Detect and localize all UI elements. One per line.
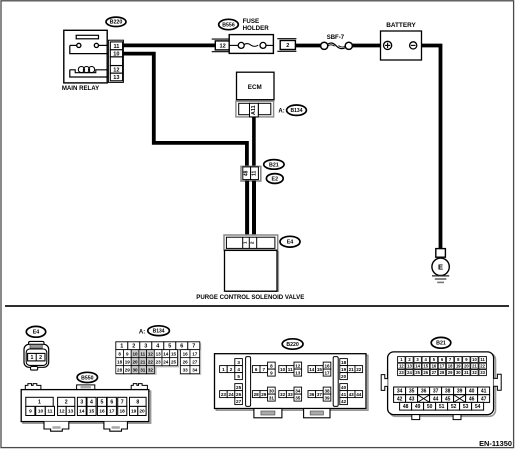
svg-text:29: 29	[448, 370, 453, 375]
svg-text:5: 5	[237, 374, 240, 379]
svg-text:7: 7	[263, 367, 266, 372]
svg-text:15: 15	[89, 409, 95, 415]
pin 11	[110, 42, 122, 50]
svg-text:24: 24	[407, 370, 412, 375]
svg-text:12: 12	[399, 364, 404, 369]
svg-text:11: 11	[252, 170, 258, 176]
svg-text:43: 43	[409, 396, 415, 402]
svg-text:14: 14	[415, 364, 420, 369]
svg-text:13: 13	[156, 351, 162, 356]
svg-text:18: 18	[448, 364, 453, 369]
svg-text:42: 42	[341, 399, 347, 404]
pin blank	[110, 57, 122, 66]
fuse holder pin 2	[277, 39, 296, 52]
connector B21/E2 pins 48 and 11	[241, 166, 261, 181]
wire SBF-7 to battery	[352, 44, 384, 48]
svg-text:40: 40	[341, 385, 347, 390]
svg-text:11: 11	[480, 357, 485, 362]
svg-text:34: 34	[397, 389, 403, 395]
svg-text:17: 17	[440, 364, 445, 369]
connector label E4 oval	[280, 236, 300, 247]
svg-text:20: 20	[139, 409, 145, 415]
svg-text:3: 3	[237, 360, 240, 365]
svg-text:38: 38	[445, 389, 451, 395]
connector B550 face view pins 1-20	[21, 384, 150, 432]
connector label E2 oval	[266, 174, 283, 184]
svg-text:48: 48	[403, 404, 409, 410]
svg-text:48: 48	[244, 170, 250, 176]
svg-text:27: 27	[432, 370, 437, 375]
svg-text:36: 36	[309, 392, 315, 397]
svg-text:8: 8	[270, 363, 273, 368]
label MAIN RELAY	[62, 85, 99, 92]
svg-text:31: 31	[464, 370, 469, 375]
svg-text:20: 20	[464, 364, 469, 369]
svg-text:30: 30	[456, 370, 461, 375]
svg-text:BATTERY: BATTERY	[386, 22, 416, 29]
svg-text:13: 13	[113, 75, 119, 81]
svg-text:39: 39	[457, 389, 463, 395]
svg-text:16: 16	[99, 409, 105, 415]
svg-text:32: 32	[148, 367, 154, 372]
svg-text:51: 51	[439, 404, 445, 410]
svg-text:37: 37	[317, 392, 323, 397]
svg-text:SBF-7: SBF-7	[327, 35, 345, 41]
svg-text:14: 14	[79, 409, 85, 415]
pin 10	[110, 50, 122, 58]
svg-text:8: 8	[136, 400, 139, 406]
svg-text:3: 3	[80, 400, 83, 406]
main relay	[64, 30, 111, 83]
svg-text:54: 54	[475, 404, 481, 410]
connector B220 pin strip	[108, 40, 123, 82]
svg-text:12: 12	[295, 363, 301, 368]
svg-text:40: 40	[469, 389, 475, 395]
connector E4 pins 1 and 2	[224, 235, 278, 250]
svg-text:44: 44	[356, 392, 362, 397]
svg-text:26: 26	[236, 392, 242, 397]
svg-text:35: 35	[409, 389, 415, 395]
svg-text:E: E	[438, 263, 443, 272]
svg-text:4: 4	[237, 367, 240, 372]
purge control solenoid valve	[196, 250, 304, 301]
connector B21 face view pins 1-54	[381, 352, 501, 420]
svg-text:50: 50	[427, 404, 433, 410]
svg-text:7: 7	[121, 400, 124, 406]
svg-text:29: 29	[125, 367, 131, 372]
svg-text:17: 17	[192, 351, 198, 356]
fuse holder body with fuse	[229, 35, 273, 54]
svg-text:6: 6	[180, 344, 183, 350]
svg-text:25: 25	[415, 370, 420, 375]
svg-text:2: 2	[286, 43, 289, 49]
svg-text:23: 23	[156, 359, 162, 364]
svg-text:4: 4	[90, 400, 93, 406]
svg-text:32: 32	[280, 392, 286, 397]
ECM	[237, 72, 275, 100]
svg-text:9: 9	[29, 409, 32, 415]
svg-text:30: 30	[269, 388, 275, 393]
svg-text:3: 3	[144, 344, 147, 350]
svg-text:33: 33	[288, 392, 294, 397]
svg-text:HOLDER: HOLDER	[243, 25, 270, 32]
svg-text:6: 6	[255, 367, 258, 372]
svg-text:22: 22	[356, 367, 362, 372]
svg-text:7: 7	[192, 344, 195, 350]
svg-text:20: 20	[132, 359, 138, 364]
svg-text:11: 11	[140, 351, 145, 356]
connector B220 face view pins 1-44	[215, 354, 368, 418]
svg-text:19: 19	[131, 409, 137, 415]
svg-text:19: 19	[456, 364, 461, 369]
svg-text:5: 5	[101, 400, 104, 406]
svg-text:52: 52	[451, 404, 457, 410]
svg-text:12: 12	[59, 409, 65, 415]
fusible link SBF-7	[321, 35, 353, 50]
svg-text:16: 16	[432, 364, 437, 369]
svg-text:14: 14	[163, 351, 169, 356]
connector label B220 oval face view	[282, 339, 303, 349]
svg-text:10: 10	[38, 409, 44, 415]
svg-text:B556: B556	[222, 22, 235, 28]
svg-text:34: 34	[295, 388, 301, 393]
svg-text:18: 18	[341, 360, 347, 365]
svg-text:E4: E4	[33, 330, 40, 336]
wire E2 pin 48 to E4 pin 1	[245, 181, 249, 238]
label FUSE HOLDER	[243, 18, 270, 32]
svg-text:19: 19	[125, 359, 131, 364]
svg-text:13: 13	[68, 409, 74, 415]
svg-text:13: 13	[295, 370, 301, 375]
svg-text:44: 44	[433, 396, 439, 402]
wire E2 pin 11 to E4 pin 2	[252, 181, 256, 238]
svg-text:42: 42	[397, 396, 403, 402]
svg-text:33: 33	[480, 370, 485, 375]
svg-text:25: 25	[171, 359, 177, 364]
svg-text:18: 18	[120, 409, 126, 415]
svg-text:45: 45	[445, 396, 451, 402]
svg-text:15: 15	[171, 351, 177, 356]
connector label A: B134 face view	[139, 326, 170, 336]
svg-text:B220: B220	[286, 342, 299, 348]
svg-text:11: 11	[113, 44, 119, 50]
connector label B550 oval	[77, 372, 97, 382]
svg-text:28: 28	[254, 392, 260, 397]
svg-text:12: 12	[148, 351, 154, 356]
svg-text:25: 25	[236, 385, 242, 390]
svg-text:10: 10	[132, 351, 138, 356]
svg-text:19: 19	[341, 367, 347, 372]
svg-text:41: 41	[481, 389, 487, 395]
svg-text:1: 1	[38, 400, 41, 406]
svg-text:B134: B134	[153, 329, 165, 335]
svg-text:1: 1	[243, 241, 249, 244]
svg-text:39: 39	[324, 395, 330, 400]
svg-text:27: 27	[236, 399, 242, 404]
svg-text:11: 11	[47, 409, 52, 415]
svg-text:10: 10	[280, 367, 286, 372]
label EN-11350	[479, 439, 512, 448]
pin 13	[110, 73, 122, 81]
svg-text:21: 21	[472, 364, 477, 369]
wire fuse holder pin 2 to SBF-7	[295, 44, 320, 48]
svg-text:11: 11	[288, 367, 293, 372]
svg-text:B220: B220	[110, 20, 123, 26]
wire relay pin 10 to connector B21 pin 48	[123, 54, 246, 168]
svg-text:21: 21	[349, 367, 355, 372]
svg-text:46: 46	[469, 396, 475, 402]
svg-text:8: 8	[118, 351, 121, 356]
svg-text:14: 14	[309, 367, 315, 372]
connector label B556 oval	[219, 19, 239, 29]
connector E4 face view	[24, 341, 49, 370]
svg-text:29: 29	[261, 392, 267, 397]
svg-text:34: 34	[192, 367, 198, 372]
svg-text:23: 23	[221, 392, 227, 397]
svg-text:E2: E2	[272, 176, 279, 182]
svg-text:5: 5	[168, 344, 171, 350]
svg-text:B134: B134	[291, 108, 303, 114]
svg-text:16: 16	[324, 363, 330, 368]
svg-text:38: 38	[324, 388, 330, 393]
svg-text:20: 20	[341, 374, 347, 379]
wire relay pin 11 to fuse holder pin 12	[123, 44, 215, 48]
svg-text:10: 10	[472, 357, 477, 362]
svg-text:16: 16	[183, 351, 189, 356]
svg-text:ECM: ECM	[248, 84, 262, 91]
svg-text:A11: A11	[251, 105, 257, 115]
svg-text:32: 32	[472, 370, 477, 375]
svg-text:A:: A:	[278, 109, 284, 115]
svg-text:17: 17	[324, 370, 330, 375]
svg-text:36: 36	[421, 389, 427, 395]
svg-text:1: 1	[30, 355, 33, 361]
ground E	[432, 249, 449, 283]
svg-text:26: 26	[423, 370, 428, 375]
svg-text:47: 47	[481, 396, 487, 402]
svg-text:28: 28	[117, 367, 123, 372]
wire ECM A11 to connector B21 pin 11	[252, 117, 256, 168]
svg-text:22: 22	[148, 359, 154, 364]
svg-text:12: 12	[219, 44, 225, 50]
svg-text:28: 28	[440, 370, 445, 375]
svg-text:49: 49	[415, 404, 421, 410]
connector label A: B134	[278, 105, 306, 115]
svg-text:6: 6	[110, 400, 113, 406]
svg-text:2: 2	[39, 355, 42, 361]
svg-text:18: 18	[117, 359, 123, 364]
svg-text:B21: B21	[436, 341, 446, 347]
svg-text:30: 30	[132, 367, 138, 372]
svg-text:12: 12	[113, 68, 119, 74]
svg-text:9: 9	[270, 370, 273, 375]
svg-text:22: 22	[480, 364, 485, 369]
svg-text:PURGE CONTROL SOLENOID VALVE: PURGE CONTROL SOLENOID VALVE	[196, 294, 304, 301]
svg-text:53: 53	[463, 404, 469, 410]
svg-text:A:: A:	[139, 330, 145, 336]
svg-text:27: 27	[192, 359, 198, 364]
svg-text:MAIN RELAY: MAIN RELAY	[62, 85, 99, 92]
svg-text:31: 31	[269, 395, 275, 400]
connector label B21 oval	[264, 160, 284, 170]
svg-text:2: 2	[230, 367, 233, 372]
separator line	[5, 305, 509, 307]
connector label B220 oval	[106, 17, 126, 26]
svg-text:2: 2	[250, 241, 256, 244]
svg-text:21: 21	[140, 359, 146, 364]
svg-text:1: 1	[120, 344, 123, 350]
svg-text:33: 33	[183, 367, 189, 372]
svg-text:23: 23	[399, 370, 404, 375]
svg-text:9: 9	[126, 351, 129, 356]
connector E4 face view label	[26, 326, 45, 337]
fuse holder pin 12	[212, 39, 231, 52]
svg-text:26: 26	[183, 359, 189, 364]
svg-text:35: 35	[295, 395, 301, 400]
svg-text:FUSE: FUSE	[243, 18, 260, 25]
svg-text:2: 2	[65, 400, 68, 406]
pin 12	[110, 66, 122, 74]
svg-text:17: 17	[109, 409, 115, 415]
svg-text:43: 43	[349, 392, 355, 397]
svg-text:B550: B550	[81, 375, 94, 381]
svg-text:24: 24	[163, 359, 169, 364]
svg-text:EN-11350: EN-11350	[479, 439, 512, 448]
svg-text:15: 15	[317, 367, 323, 372]
svg-text:41: 41	[341, 392, 347, 397]
svg-text:2: 2	[132, 344, 135, 350]
svg-text:1: 1	[222, 367, 225, 372]
svg-text:31: 31	[140, 367, 146, 372]
svg-text:24: 24	[228, 392, 234, 397]
ECM connector A pin A11	[236, 101, 274, 117]
svg-text:B21: B21	[269, 162, 279, 168]
connector B134 face view pins 1-34	[116, 342, 201, 375]
svg-text:15: 15	[423, 364, 428, 369]
svg-text:13: 13	[407, 364, 412, 369]
battery	[381, 22, 422, 60]
wire battery to ground E	[422, 46, 441, 250]
svg-text:37: 37	[433, 389, 439, 395]
svg-text:E4: E4	[287, 240, 294, 246]
connector label B21 oval face view	[431, 337, 451, 348]
